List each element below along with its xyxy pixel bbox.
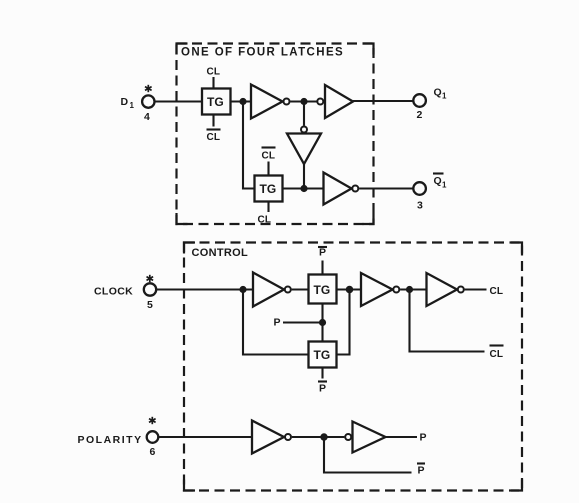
asterisk D1 bbox=[145, 85, 152, 92]
wire TG1 to inverter A bbox=[231, 100, 252, 102]
svg-text:1: 1 bbox=[442, 181, 447, 190]
node E bbox=[346, 286, 354, 294]
label Q1bar bbox=[433, 172, 444, 174]
buffer I with input bubble bbox=[345, 434, 351, 440]
svg-text:1: 1 bbox=[130, 101, 135, 110]
wire buffer B to Q1 bbox=[353, 100, 413, 102]
wire POLARITY to inverter H bbox=[158, 436, 252, 438]
svg-text:TG: TG bbox=[314, 348, 331, 362]
feedback inverter bubble bbox=[301, 127, 307, 133]
svg-text:TG: TG bbox=[314, 283, 331, 297]
inverter A bbox=[251, 85, 283, 119]
svg-text:D: D bbox=[121, 96, 129, 108]
control tick CL to TG1 bbox=[212, 77, 214, 89]
control tick TG1 to CLbar bbox=[212, 115, 214, 127]
wire inverter A to buffer B bbox=[290, 100, 316, 102]
inverter E bbox=[253, 273, 284, 307]
terminal CLOCK pin 5 bbox=[144, 283, 156, 295]
wire node F to CLbar output bbox=[410, 290, 485, 352]
svg-text:CLOCK: CLOCK bbox=[94, 286, 133, 298]
transmission gate TG1 bbox=[202, 89, 231, 115]
wire buffer D to Q1bar bbox=[359, 187, 413, 189]
label Pbar above TG3 bbox=[318, 246, 327, 248]
latch box corner marks bbox=[177, 44, 374, 225]
terminal Q1bar pin 3 bbox=[413, 182, 426, 195]
svg-text:P: P bbox=[418, 465, 425, 477]
control tick TG2 to CL bbox=[267, 202, 269, 213]
terminal Q1 pin 2 bbox=[413, 94, 426, 107]
control tick TG4 to Pbar bbox=[321, 368, 323, 379]
svg-text:TG: TG bbox=[260, 182, 277, 196]
svg-text:1: 1 bbox=[442, 92, 447, 101]
wire feedback inverter to node C bbox=[303, 164, 305, 189]
inverter H bbox=[252, 421, 284, 454]
label D1 bbox=[121, 96, 135, 110]
terminal POLARITY pin 6 bbox=[147, 431, 159, 443]
node G bbox=[319, 319, 326, 326]
wire D1 to TG1 bbox=[155, 100, 203, 102]
svg-text:5: 5 bbox=[147, 299, 153, 311]
svg-text:ONE OF FOUR LATCHES: ONE OF FOUR LATCHES bbox=[181, 47, 344, 59]
svg-text:CL: CL bbox=[207, 67, 221, 78]
svg-text:Q: Q bbox=[434, 87, 442, 99]
dashed box ONE OF FOUR LATCHES bbox=[177, 44, 374, 225]
node D bbox=[239, 286, 246, 293]
svg-text:3: 3 bbox=[417, 200, 423, 212]
svg-text:P: P bbox=[274, 317, 281, 329]
node H bbox=[320, 433, 327, 440]
svg-text:CL: CL bbox=[258, 215, 272, 226]
wire TG3 to inverter F bbox=[337, 288, 362, 290]
wire inverter H to buffer I bbox=[292, 436, 345, 438]
wire inverter E to TG3 bbox=[292, 288, 309, 290]
label Pbar output bbox=[417, 462, 425, 464]
node C bbox=[300, 185, 307, 192]
svg-text:CL: CL bbox=[490, 286, 504, 297]
svg-text:4: 4 bbox=[144, 111, 150, 123]
svg-text:6: 6 bbox=[150, 446, 156, 458]
dashed box CONTROL bbox=[184, 243, 522, 491]
transmission gate TG4 bbox=[309, 342, 337, 368]
transmission gate TG2 bbox=[255, 176, 283, 202]
label Q1 bbox=[434, 87, 448, 101]
asterisk POLARITY bbox=[149, 417, 156, 424]
wire TG2 to buffer D bbox=[283, 187, 324, 189]
svg-text:P: P bbox=[420, 432, 427, 444]
svg-text:CL: CL bbox=[207, 132, 221, 143]
label Pbar below TG4 bbox=[318, 380, 327, 382]
node F bbox=[406, 286, 413, 293]
buffer D bbox=[324, 173, 352, 205]
control tick Pbar to TG3 bbox=[321, 261, 323, 276]
svg-text:P: P bbox=[319, 247, 326, 259]
control tick CLbar to TG2 bbox=[267, 162, 269, 176]
label CLbar below TG1 bbox=[207, 128, 221, 130]
wire TG3 to TG4 vertical bbox=[321, 304, 323, 342]
svg-text:CL: CL bbox=[262, 151, 276, 162]
asterisk CLOCK bbox=[147, 275, 154, 282]
label CLbar above TG2 bbox=[262, 146, 276, 148]
svg-text:POLARITY: POLARITY bbox=[78, 434, 143, 446]
svg-text:2: 2 bbox=[417, 109, 423, 121]
svg-text:CONTROL: CONTROL bbox=[192, 247, 248, 259]
terminal D1 pin 4 bbox=[142, 95, 154, 107]
transmission gate TG3 bbox=[309, 275, 337, 304]
wire inverter F to inverter G bbox=[400, 288, 426, 290]
svg-text:P: P bbox=[319, 383, 326, 395]
feedback inverter (pointing down) bbox=[287, 134, 321, 165]
wire buffer I to P output bbox=[386, 436, 418, 438]
inverter F bbox=[361, 273, 393, 306]
svg-text:CL: CL bbox=[490, 349, 504, 360]
inverter G bbox=[427, 273, 458, 306]
wire node B down to feedback inverter bbox=[303, 102, 305, 126]
wire CLOCK to inverter E bbox=[156, 288, 253, 290]
wire inverter G to CL bbox=[465, 288, 487, 290]
node B bbox=[300, 98, 307, 105]
svg-text:Q: Q bbox=[434, 175, 442, 187]
wire P to node G bbox=[283, 321, 323, 323]
buffer B with input bubble bbox=[317, 99, 323, 105]
svg-text:TG: TG bbox=[207, 95, 224, 109]
wire node A down to TG2 bbox=[243, 102, 255, 189]
label CLbar output bbox=[490, 344, 504, 346]
node A bbox=[239, 98, 246, 105]
wire node H to Pbar output bbox=[324, 437, 412, 473]
control box corner marks bbox=[184, 243, 522, 491]
wire node D down to TG4 bbox=[243, 290, 309, 355]
wire TG4 to node E bbox=[337, 290, 350, 355]
